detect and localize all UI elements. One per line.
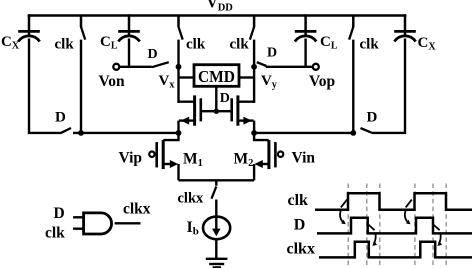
wire CL-right down to Vop node [304,39,306,67]
svg-text:VDD: VDD [207,0,234,13]
ground [206,259,228,268]
arrow clk rise to D rise, period 2 [405,200,412,225]
wire CX-left down to left D switch [29,39,62,133]
svg-text:clk: clk [45,225,65,242]
wire Ib to ground [215,239,217,258]
net VDD rail [28,14,407,17]
junction dot col7/D-wire [350,130,356,136]
svg-text:D: D [55,110,66,126]
AND gate U1 (D,clk -> clkx) [73,213,140,234]
current source Ib [203,217,230,240]
wire column-7 vertical [352,40,354,133]
wire CL-left down to Von node [128,39,130,67]
wire Von to D switch [119,66,152,68]
svg-text:CMD: CMD [198,67,235,86]
waveform clkx [319,242,472,258]
svg-text:Vop: Vop [309,73,335,90]
junction dot Vy/M2-drain/D-wire [251,130,257,136]
transistor upper-right pass device [216,95,255,132]
block CMD box [194,65,239,87]
svg-text:clkx: clkx [178,190,205,206]
junction dot Vx/M1-drain/D-wire [176,130,182,136]
switch D (Vy-Vop) lever [257,62,267,66]
svg-text:clk: clk [55,37,75,53]
wire D switch to Vop [266,66,313,68]
capacitor CL right [295,14,317,41]
net Vx vertical [177,40,179,103]
junction dot on Vy (D switch contact) [251,64,257,70]
switch D (Von-Vx) lever [152,62,169,67]
capacitor CX right [394,14,416,41]
transistor upper-left pass device [178,95,217,132]
wire CX-right down to right D switch [372,39,405,133]
wire column-2 vertical [80,40,82,133]
svg-text:D: D [148,47,158,62]
svg-text:clk: clk [230,37,250,53]
capacitor CL left [118,14,140,41]
svg-text:D: D [367,109,378,125]
waveform D [317,218,472,234]
switch clk (Vx column) [179,16,183,40]
wire Vx to CMD [179,76,195,78]
svg-text:Vin: Vin [292,150,316,167]
svg-text:D: D [267,45,277,60]
svg-text:D: D [294,217,306,234]
timing grid dashed lines [348,184,446,267]
switch clk (column 2) [81,16,85,40]
svg-text:clkx: clkx [123,201,151,218]
junction dot D gate node [214,109,219,114]
svg-text:D: D [220,91,230,106]
svg-text:clk: clk [186,37,206,53]
svg-text:Vip: Vip [119,150,143,167]
switch clk (Vy column) [250,16,254,40]
switch clk (column 7) [349,16,353,40]
arrow D fall to clkx fall, period 2 [433,225,442,247]
switch D left lever [62,128,72,133]
junction col2/D-wire [78,130,84,136]
wire CMD to D gate node [215,86,217,111]
svg-text:Von: Von [99,73,126,90]
svg-text:clk: clk [360,37,380,53]
wire CMD to Vy [239,76,254,78]
waveform clk [315,193,472,210]
wire left D-switch to M1 drain node [73,132,179,134]
arrow D fall to clkx fall, period 1 [368,225,377,247]
switch D right lever [361,128,372,133]
transistor M2 [254,133,283,180]
svg-text:clk: clk [288,192,309,209]
wire switch to Ib [215,200,217,232]
capacitor CX left [18,14,40,41]
node Vop terminal circle [313,64,319,70]
svg-text:clkx: clkx [287,241,315,258]
net Vy vertical [253,40,255,103]
svg-text:D: D [54,205,65,222]
transistor M1 [149,133,178,180]
wire common tail node [179,180,255,185]
wire Vy node to col7 junction [254,132,353,134]
arrow clk rise to D rise, period 1 [340,200,347,225]
junction dot on Vx (D switch contact) [176,64,182,70]
switch clkx lever [212,187,217,199]
node Von terminal circle [113,64,119,70]
